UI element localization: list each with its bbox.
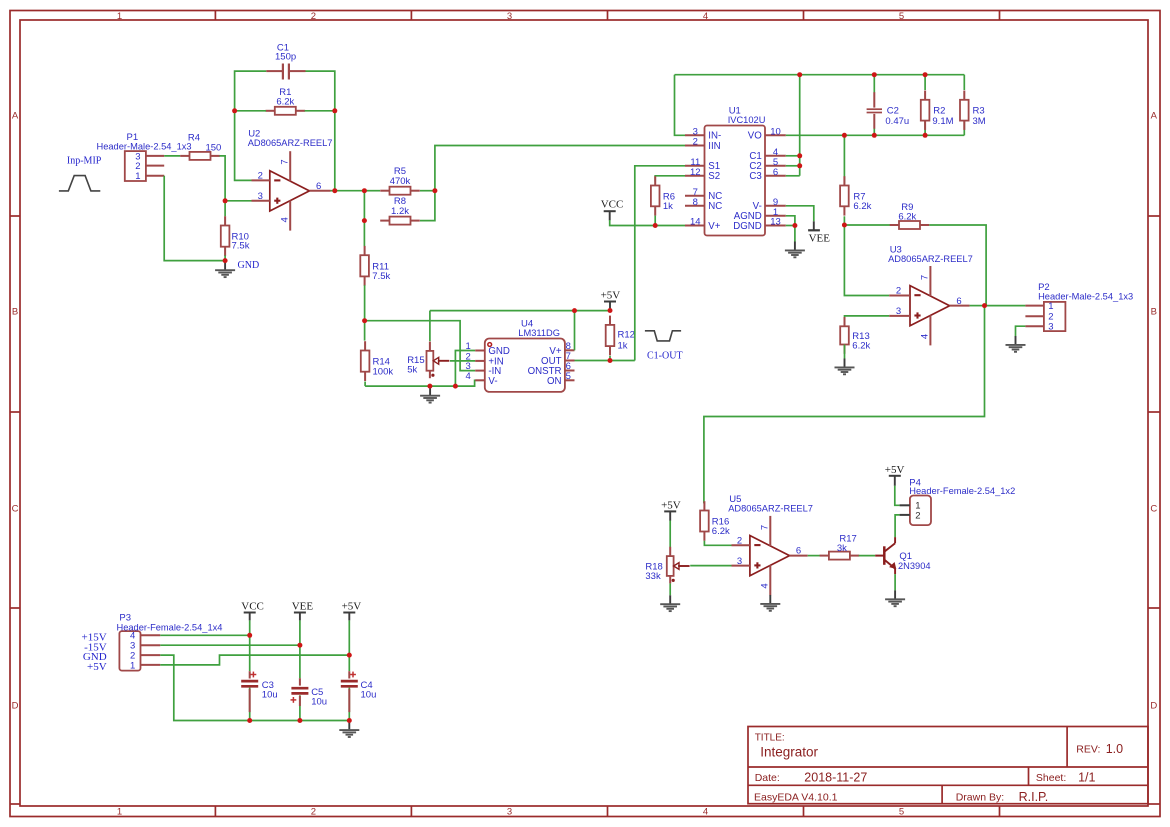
junction R5/R8 left bbox=[362, 188, 367, 193]
svg-text:13: 13 bbox=[770, 217, 781, 228]
svg-text:VO: VO bbox=[748, 131, 762, 142]
U2 pin7 label bbox=[279, 159, 290, 164]
svg-text:EasyEDA V4.10.1: EasyEDA V4.10.1 bbox=[754, 792, 838, 804]
svg-text:2: 2 bbox=[311, 11, 316, 22]
svg-text:+5V: +5V bbox=[87, 661, 107, 673]
svg-text:6.2k: 6.2k bbox=[712, 526, 730, 537]
ground below R10 bbox=[215, 261, 235, 277]
resistor R4 bbox=[180, 133, 221, 160]
junction AGND/DGND bbox=[792, 223, 797, 228]
junction +5V column bbox=[347, 653, 352, 658]
resistor R16 6.2k bbox=[700, 501, 730, 541]
wire R3 column bbox=[963, 75, 965, 136]
wire P1 pin3 to R4 bbox=[164, 155, 180, 157]
resistor R3 3M bbox=[960, 91, 986, 130]
capacitor C2 0.47u bbox=[867, 92, 910, 129]
wire P3 pin4 to VCC bbox=[160, 634, 249, 636]
capacitor C4 10u bbox=[341, 671, 377, 712]
wire feedback loop left/top bbox=[235, 71, 267, 180]
svg-text:3: 3 bbox=[258, 191, 263, 202]
wire R13 top to U3 pin3 bbox=[845, 316, 890, 326]
svg-text:+5V: +5V bbox=[342, 600, 362, 612]
wire U2 out to R5 node bbox=[335, 190, 365, 192]
svg-text:B: B bbox=[12, 306, 18, 317]
svg-text:150: 150 bbox=[205, 143, 221, 154]
svg-text:IIN: IIN bbox=[708, 141, 720, 152]
svg-text:Date:: Date: bbox=[755, 772, 780, 784]
wire U1 V- to VEE bbox=[786, 206, 814, 222]
net label GND (P3) bbox=[83, 651, 107, 663]
svg-text:1: 1 bbox=[130, 660, 135, 671]
svg-text:1k: 1k bbox=[618, 341, 628, 352]
wire U4 OUT to S1 riser bbox=[575, 360, 635, 362]
net label C1-OUT bbox=[647, 350, 683, 361]
capacitor C3 10u bbox=[241, 671, 277, 712]
wire R18 wiper to U5 pin3 bbox=[690, 565, 731, 567]
junction rail C4 bbox=[347, 718, 352, 723]
svg-text:GND: GND bbox=[238, 260, 260, 271]
svg-text:3: 3 bbox=[896, 306, 901, 317]
junction rail at R15 bbox=[427, 384, 432, 389]
svg-text:Drawn By:: Drawn By: bbox=[956, 792, 1004, 804]
wire C-pins riser bbox=[799, 75, 801, 176]
wire +5V column bbox=[348, 620, 350, 720]
ground below P2 bbox=[1006, 336, 1026, 352]
svg-text:1.0: 1.0 bbox=[1106, 742, 1123, 756]
svg-text:3: 3 bbox=[507, 11, 512, 22]
svg-text:REV:: REV: bbox=[1076, 744, 1100, 756]
svg-text:10u: 10u bbox=[262, 690, 278, 701]
svg-text:A: A bbox=[12, 110, 19, 121]
wire U1 C1 pin bbox=[786, 155, 800, 157]
wire R10 bottom to GND bbox=[224, 255, 226, 260]
svg-text:B: B bbox=[1151, 306, 1157, 317]
resistor R7 6.2k bbox=[840, 176, 872, 215]
wire R9 right to feedback bbox=[929, 225, 986, 305]
resistor R12 1k bbox=[606, 316, 635, 356]
svg-text:10: 10 bbox=[770, 126, 781, 137]
wire Q1 collector to P4 pin2 bbox=[895, 515, 900, 537]
svg-text:1/1: 1/1 bbox=[1078, 771, 1095, 785]
connector P4 Header-Female-2.54_1x2 bbox=[900, 477, 1016, 525]
svg-text:NC: NC bbox=[708, 201, 722, 212]
junction +5V rail at U4 V+ bbox=[572, 308, 577, 313]
svg-text:AD8065ARZ-REEL7: AD8065ARZ-REEL7 bbox=[728, 503, 813, 513]
svg-text:9.1M: 9.1M bbox=[932, 116, 953, 127]
net label +5V (P3) bbox=[87, 661, 107, 673]
svg-text:1: 1 bbox=[117, 11, 122, 22]
junction VEE column bbox=[297, 643, 302, 648]
wire +5V to R18 bbox=[669, 521, 671, 548]
wire U1 IN- riser bbox=[675, 75, 686, 136]
connector P1 Header-Male-2.54_1x3 bbox=[97, 132, 192, 182]
svg-text:7.5k: 7.5k bbox=[232, 240, 250, 251]
junction R8 left bbox=[362, 218, 367, 223]
svg-text:6: 6 bbox=[316, 181, 321, 192]
svg-text:7: 7 bbox=[279, 159, 290, 164]
U5 pin2 stub bbox=[732, 536, 750, 547]
potentiometer R18 33k bbox=[645, 547, 689, 584]
svg-text:DGND: DGND bbox=[733, 221, 762, 232]
junction R7/R9/U3- bbox=[842, 223, 847, 228]
svg-text:8: 8 bbox=[693, 197, 698, 208]
svg-text:1k: 1k bbox=[663, 201, 673, 212]
wire U3 out down to U5 stage bbox=[704, 306, 985, 504]
power VEE bbox=[808, 221, 830, 244]
junction top rail C2 bbox=[872, 72, 877, 77]
capacitor C1 150p bbox=[266, 42, 305, 79]
op-amp U5 AD8065ARZ-REEL7 bbox=[728, 494, 813, 595]
transistor Q1 2N3904 bbox=[875, 537, 930, 574]
resistor R11 7.5k bbox=[360, 246, 390, 286]
svg-text:C2: C2 bbox=[887, 105, 899, 116]
svg-text:AD8065ARZ-REEL7: AD8065ARZ-REEL7 bbox=[888, 254, 973, 264]
wire down to R8 bbox=[363, 191, 365, 221]
net label -15V bbox=[84, 641, 107, 653]
svg-text:2: 2 bbox=[896, 286, 901, 297]
junction at R4/R10/U2+ bbox=[223, 198, 228, 203]
comparator U4 LM311DG bbox=[466, 318, 575, 392]
junction R1 left bbox=[232, 108, 237, 113]
resistor R13 6.2k bbox=[840, 317, 870, 354]
svg-text:2: 2 bbox=[258, 171, 263, 182]
wire P1 pin1 to GND node bbox=[164, 176, 225, 261]
U5 pin7 label bbox=[759, 525, 770, 530]
wire to R11 bbox=[363, 221, 365, 247]
svg-text:3: 3 bbox=[737, 556, 742, 567]
svg-text:6.2k: 6.2k bbox=[853, 201, 871, 212]
svg-text:6: 6 bbox=[773, 167, 778, 178]
C1-OUT pulse waveform bbox=[645, 331, 681, 341]
wire U1 S2 to R6 bbox=[655, 176, 685, 182]
svg-text:C3: C3 bbox=[749, 171, 761, 182]
resistor R6 1k bbox=[651, 176, 675, 215]
svg-text:4: 4 bbox=[703, 807, 708, 818]
svg-text:1.2k: 1.2k bbox=[391, 206, 409, 217]
wire feedback loop right bbox=[306, 71, 335, 191]
net label Inp-MIP bbox=[67, 156, 102, 167]
wire P3 pin3 to VEE bbox=[160, 644, 300, 646]
wire R10 top bbox=[224, 201, 226, 216]
input pulse waveform bbox=[59, 176, 100, 191]
wire U4 pin1 to rail bbox=[455, 351, 475, 387]
wire U1 DGND bbox=[786, 225, 795, 227]
svg-text:2: 2 bbox=[311, 807, 316, 818]
ground below Q1 bbox=[885, 590, 905, 606]
title block bbox=[748, 727, 1148, 805]
wire R17 to Q1 base bbox=[859, 555, 876, 557]
svg-text:2: 2 bbox=[737, 536, 742, 547]
resistor R9 6.2k bbox=[890, 202, 930, 229]
ground below R13 bbox=[835, 359, 855, 375]
svg-text:5: 5 bbox=[566, 371, 571, 382]
svg-text:33k: 33k bbox=[645, 571, 661, 582]
svg-text:12: 12 bbox=[690, 167, 701, 178]
svg-text:4: 4 bbox=[466, 371, 471, 382]
wire +5V to P4 pin1 bbox=[895, 486, 900, 506]
svg-text:D: D bbox=[12, 700, 19, 711]
resistor R14 100k bbox=[361, 341, 394, 381]
wire R7 bottom bbox=[843, 216, 845, 225]
integrator IC U1 IVC102U bbox=[685, 106, 786, 236]
svg-text:S2: S2 bbox=[708, 171, 720, 182]
wire VCC to U1 V+ bbox=[610, 220, 685, 226]
wire R14 bottom bbox=[364, 382, 366, 387]
svg-text:2: 2 bbox=[693, 137, 698, 148]
svg-text:2018-11-27: 2018-11-27 bbox=[804, 771, 867, 785]
svg-text:4: 4 bbox=[703, 11, 708, 22]
junction at U2 output bbox=[332, 188, 337, 193]
wire R11 bottom bbox=[364, 285, 366, 321]
junction rail at pin1 drop bbox=[453, 384, 458, 389]
U3 output stub bbox=[950, 296, 970, 307]
svg-text:R4: R4 bbox=[188, 133, 200, 144]
wire R1 left bbox=[235, 110, 266, 112]
junction VO at C2 bbox=[872, 133, 877, 138]
junction top rail R2 bbox=[923, 72, 928, 77]
U3 pin7 label bbox=[919, 275, 930, 280]
wire R7 top bbox=[843, 135, 845, 183]
wire R4 to U2 pin3 bbox=[220, 156, 252, 201]
svg-text:R.I.P.: R.I.P. bbox=[1019, 790, 1049, 804]
wire Q1 emitter to ground bbox=[894, 574, 896, 590]
U3 pin3 stub bbox=[889, 306, 910, 317]
U2 pin3 stub bbox=[252, 191, 270, 202]
svg-text:6.2k: 6.2k bbox=[898, 212, 916, 223]
svg-text:Header-Male-2.54_1x3: Header-Male-2.54_1x3 bbox=[97, 141, 192, 151]
wire top rail bbox=[675, 74, 965, 76]
junction R1 right bbox=[332, 108, 337, 113]
svg-text:ON: ON bbox=[547, 376, 562, 387]
svg-text:Header-Female-2.54_1x4: Header-Female-2.54_1x4 bbox=[117, 622, 223, 632]
wire riser to U1 S1 bbox=[635, 166, 685, 361]
capacitor C5 10u bbox=[291, 678, 328, 707]
U3 pin4 label bbox=[919, 334, 930, 339]
power +5V (P3) bbox=[342, 600, 362, 620]
wire R11 node to R14 bbox=[364, 321, 366, 341]
svg-text:VEE: VEE bbox=[292, 600, 314, 612]
wire U4 V+ to +5V rail bbox=[574, 311, 576, 351]
junction +5V at R12 bbox=[608, 308, 613, 313]
wire VCC column bbox=[249, 620, 251, 720]
resistor R8 1.2k bbox=[380, 196, 420, 225]
net label +15V bbox=[82, 631, 107, 643]
power +5V above P4 bbox=[885, 464, 905, 486]
svg-text:IVC102U: IVC102U bbox=[728, 115, 766, 125]
svg-text:1: 1 bbox=[1048, 301, 1053, 312]
wire R11 node to U4 -IN bbox=[365, 321, 476, 371]
resistor R2 9.1M bbox=[921, 91, 954, 130]
connector P3 Header-Female-2.54_1x4 bbox=[117, 613, 223, 672]
junction at R10/GND bbox=[223, 258, 228, 263]
svg-text:4: 4 bbox=[919, 334, 930, 339]
svg-text:R12: R12 bbox=[618, 329, 635, 340]
junction VCC column bbox=[247, 633, 252, 638]
svg-text:6: 6 bbox=[956, 296, 961, 307]
wire C2 column bbox=[873, 75, 875, 136]
svg-text:+5V: +5V bbox=[601, 290, 621, 302]
wire R7 node to U3 pin2 bbox=[844, 225, 889, 296]
wire R15 bottom to rail bbox=[429, 386, 431, 388]
svg-text:Header-Female-2.54_1x2: Header-Female-2.54_1x2 bbox=[909, 486, 1015, 496]
wire R12 bottom bbox=[609, 356, 611, 361]
svg-text:LM311DG: LM311DG bbox=[518, 328, 560, 338]
wire VEE column bbox=[299, 620, 301, 720]
wire R5 leads bbox=[364, 190, 435, 192]
U5 output stub bbox=[790, 546, 808, 557]
ground below C4 bbox=[339, 721, 359, 737]
U5 pin3 stub bbox=[732, 556, 750, 567]
svg-text:C1-OUT: C1-OUT bbox=[647, 350, 683, 361]
svg-text:4: 4 bbox=[279, 217, 290, 222]
op-amp U2 AD8065ARZ-REEL7 bbox=[248, 129, 333, 231]
svg-text:1: 1 bbox=[117, 807, 122, 818]
junction R5 right bbox=[432, 188, 437, 193]
wire ground rail bbox=[365, 380, 485, 386]
wire U1 AGND bbox=[786, 216, 795, 226]
net label GND bbox=[238, 260, 260, 271]
junction rail C5 bbox=[297, 718, 302, 723]
svg-text:5: 5 bbox=[899, 11, 904, 22]
svg-text:VCC: VCC bbox=[601, 198, 624, 210]
junction VO at R7 bbox=[842, 133, 847, 138]
wire R13 bottom bbox=[844, 345, 846, 359]
svg-text:100k: 100k bbox=[373, 366, 394, 377]
svg-text:VEE: VEE bbox=[809, 232, 831, 244]
svg-text:V-: V- bbox=[488, 376, 497, 387]
svg-text:Sheet:: Sheet: bbox=[1036, 772, 1066, 784]
svg-text:A: A bbox=[1151, 110, 1158, 121]
wire U5 out to R17 bbox=[808, 555, 821, 557]
svg-text:R2: R2 bbox=[933, 105, 945, 116]
svg-text:R3: R3 bbox=[973, 105, 985, 116]
svg-text:AD8065ARZ-REEL7: AD8065ARZ-REEL7 bbox=[248, 138, 333, 148]
U2 pin4 label bbox=[279, 217, 290, 222]
wire R5/R8 to U1 IIN bbox=[435, 146, 685, 191]
svg-text:TITLE:: TITLE: bbox=[755, 733, 785, 744]
resistor R17 3k bbox=[820, 533, 860, 559]
resistor R5 470k bbox=[380, 166, 420, 195]
power VEE (P3) bbox=[292, 600, 314, 620]
svg-text:+5V: +5V bbox=[661, 500, 681, 512]
svg-text:V+: V+ bbox=[708, 221, 720, 232]
wire R9 left lead bbox=[844, 224, 890, 226]
junction rail C3 bbox=[247, 718, 252, 723]
svg-text:GND: GND bbox=[488, 346, 510, 357]
svg-text:10u: 10u bbox=[361, 690, 377, 701]
wire +5V rail to R15 bbox=[429, 311, 431, 342]
svg-text:Inp-MIP: Inp-MIP bbox=[67, 156, 102, 167]
svg-text:3: 3 bbox=[507, 807, 512, 818]
svg-text:14: 14 bbox=[690, 217, 701, 228]
junction top rail C-pins riser bbox=[797, 72, 802, 77]
svg-text:C: C bbox=[1150, 503, 1157, 514]
ground below R15 bbox=[420, 387, 440, 403]
junction riser C1 bbox=[797, 153, 802, 158]
svg-text:6.2k: 6.2k bbox=[276, 96, 294, 107]
svg-text:3: 3 bbox=[1048, 322, 1053, 333]
svg-text:6: 6 bbox=[796, 546, 801, 557]
svg-text:1: 1 bbox=[466, 341, 471, 352]
svg-text:5k: 5k bbox=[407, 365, 417, 376]
svg-text:1: 1 bbox=[135, 171, 140, 182]
op-amp U3 AD8065ARZ-REEL7 bbox=[888, 245, 973, 346]
connector P2 Header-Male-2.54_1x3 bbox=[1025, 282, 1133, 333]
svg-text:VCC: VCC bbox=[241, 600, 264, 612]
junction R6 at V+ rail bbox=[653, 223, 658, 228]
junction riser C2 bbox=[797, 163, 802, 168]
wire R6 bottom bbox=[654, 216, 656, 226]
svg-text:Header-Male-2.54_1x3: Header-Male-2.54_1x3 bbox=[1038, 292, 1133, 302]
junction VO at R2 bbox=[923, 133, 928, 138]
wire R18 bottom bbox=[669, 583, 671, 595]
junction U3 output bbox=[982, 303, 987, 308]
wire R15 wiper to U4 +IN bbox=[450, 360, 475, 362]
wire R16 to U5 pin2 bbox=[704, 541, 731, 546]
power +5V above R12 bbox=[601, 290, 621, 311]
U2 pin2 stub bbox=[252, 171, 270, 182]
svg-text:C: C bbox=[12, 503, 19, 514]
wire P3 pin2 to ground rail bbox=[160, 655, 349, 720]
svg-text:3M: 3M bbox=[973, 116, 986, 127]
U3 pin2 stub bbox=[889, 286, 910, 297]
wire R1 right bbox=[305, 110, 335, 112]
svg-text:2: 2 bbox=[915, 510, 920, 521]
wire +5V rail bbox=[430, 310, 610, 312]
wire U2 out to junction bbox=[331, 190, 335, 192]
svg-text:6.2k: 6.2k bbox=[852, 341, 870, 352]
ground below U5 bbox=[760, 595, 780, 611]
svg-text:+5V: +5V bbox=[885, 464, 905, 476]
ground below R18 bbox=[660, 595, 680, 611]
junction R12 bottom bbox=[608, 358, 613, 363]
wire P3 pin1 to +5V bbox=[160, 655, 349, 665]
U2 output stub bbox=[309, 181, 330, 192]
svg-text:3k: 3k bbox=[837, 543, 847, 554]
wire U1 C3 pin bbox=[786, 175, 800, 177]
svg-text:D: D bbox=[1150, 700, 1157, 711]
wire U3 out bbox=[970, 305, 985, 307]
wire P2 pin3 to ground bbox=[1016, 326, 1026, 336]
resistor R1 6.2k bbox=[266, 87, 306, 115]
power VCC (P3) bbox=[241, 600, 264, 620]
svg-text:10u: 10u bbox=[311, 697, 327, 708]
svg-text:5: 5 bbox=[899, 807, 904, 818]
power VCC bbox=[601, 198, 624, 220]
ground below U1 bbox=[785, 242, 805, 258]
wire U3 out to P2 bbox=[985, 305, 1026, 307]
svg-text:0.47u: 0.47u bbox=[885, 116, 909, 127]
svg-text:7.5k: 7.5k bbox=[372, 271, 390, 282]
wire R2 column bbox=[924, 75, 926, 136]
svg-text:7: 7 bbox=[919, 275, 930, 280]
svg-text:4: 4 bbox=[759, 583, 770, 588]
junction R11 bottom bbox=[362, 318, 367, 323]
wire R8 right up bbox=[420, 191, 435, 221]
wire U1 VO rail bbox=[786, 134, 965, 136]
wire DGND down bbox=[794, 226, 796, 242]
svg-text:150p: 150p bbox=[275, 51, 296, 62]
svg-text:2N3904: 2N3904 bbox=[898, 561, 931, 571]
power +5V above R18 bbox=[661, 500, 681, 521]
potentiometer R15 5k bbox=[407, 342, 449, 379]
svg-text:470k: 470k bbox=[390, 176, 411, 187]
resistor R10 bbox=[221, 216, 250, 256]
svg-text:Integrator: Integrator bbox=[760, 745, 818, 760]
wire U1 C2 pin bbox=[786, 165, 800, 167]
U5 pin4 label bbox=[759, 583, 770, 588]
svg-text:7: 7 bbox=[759, 525, 770, 530]
